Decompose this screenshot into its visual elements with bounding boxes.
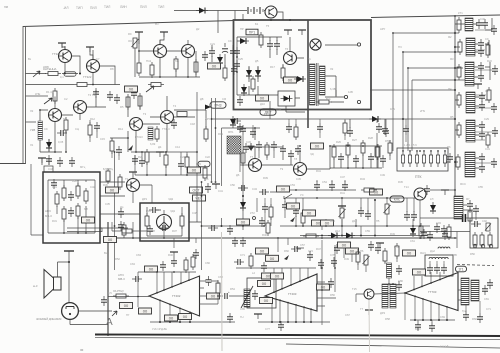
- resistor R42: [419, 223, 423, 239]
- wire: to right: [174, 110, 206, 128]
- arrow A2: [290, 217, 295, 222]
- fuse label F1: [246, 29, 258, 35]
- wire: row2 bus: [40, 90, 106, 152]
- capacitor C44: [68, 207, 74, 217]
- wire: r71 link: [90, 120, 97, 142]
- diode D11: [240, 199, 246, 211]
- capacitor C58: [293, 207, 299, 217]
- pot arrow P2: [146, 86, 154, 92]
- wire: vertical junction bus: [202, 182, 244, 270]
- node N3: [347, 145, 349, 147]
- diode D9: [294, 76, 306, 82]
- capacitor C124: [202, 51, 208, 61]
- wire: U2 stubs: [236, 268, 336, 322]
- node N1: [454, 46, 456, 48]
- capacitor C73: [261, 262, 267, 272]
- svg-text:ГТ402: ГТ402: [172, 294, 181, 298]
- ground G12: [254, 314, 262, 319]
- terminal O1: [357, 43, 360, 46]
- svg-text:R54: R54: [230, 287, 235, 291]
- capacitor C105: [380, 155, 386, 165]
- svg-text:ЖОНБЫЙ ДИНАМИК: ЖОНБЫЙ ДИНАМИК: [36, 317, 62, 321]
- svg-text:ДР2: ДР2: [380, 311, 386, 315]
- coil L37: [454, 196, 463, 219]
- svg-text:СЗ: СЗ: [228, 39, 232, 43]
- svg-text:Т7: Т7: [250, 155, 254, 159]
- svg-text:R58: R58: [385, 317, 390, 321]
- svg-text:С63: С63: [130, 262, 135, 266]
- audio frame left: [107, 222, 109, 336]
- svg-text:КТ1: КТ1: [458, 11, 463, 15]
- transistor T6: [284, 52, 297, 65]
- resistor R55: [164, 152, 168, 168]
- svg-text:АРУ: АРУ: [205, 117, 211, 121]
- wire: extras links: [257, 192, 285, 218]
- resistor R49: [356, 249, 360, 265]
- svg-text:Ф2: Ф2: [448, 35, 452, 39]
- wire: mid band link: [265, 198, 271, 226]
- svg-text:Т15: Т15: [352, 287, 357, 291]
- wire: border links left: [26, 96, 49, 122]
- capacitor C8: [209, 47, 215, 57]
- svg-text:R22: R22: [487, 59, 492, 63]
- capacitor C82: [487, 279, 493, 289]
- capacitor C10: [230, 47, 236, 57]
- wire: cluster1 link: [455, 18, 492, 30]
- diode D5: [246, 67, 252, 79]
- capacitor C133: [415, 321, 421, 331]
- svg-text:R8: R8: [110, 67, 114, 71]
- svg-text:Т6: Т6: [63, 117, 67, 121]
- svg-text:R12: R12: [90, 117, 95, 121]
- wire: cluster links: [344, 248, 397, 284]
- label L31: [413, 269, 426, 275]
- resistor R28: [361, 140, 365, 156]
- switch S1: [401, 152, 404, 167]
- coil L2: [38, 121, 43, 140]
- svg-text:ПИЛ: ПИЛ: [90, 6, 97, 10]
- svg-text:R17: R17: [270, 65, 275, 69]
- resistor R58: [375, 144, 379, 160]
- ground G16: [156, 152, 164, 157]
- diode D8: [281, 96, 293, 102]
- label L25: [256, 248, 269, 254]
- resistor R74: [294, 124, 298, 140]
- svg-text:ЧД: ЧД: [310, 152, 314, 156]
- capacitor C93: [434, 223, 440, 233]
- resistor R75: [343, 120, 347, 136]
- wire: bus y226: [202, 218, 266, 226]
- resistor R63: [486, 42, 490, 58]
- capacitor C83: [427, 264, 433, 274]
- capacitor C15: [274, 40, 280, 50]
- discriminator frame M2: [140, 203, 189, 241]
- svg-text:IIII: IIII: [80, 348, 84, 352]
- svg-text:Д13: Д13: [352, 219, 357, 223]
- terminal O4: [253, 217, 256, 220]
- svg-text:С63: С63: [136, 253, 141, 257]
- bridge rectifier box: [278, 91, 295, 106]
- capacitor C9: [222, 49, 228, 53]
- capacitor C48: [205, 183, 211, 193]
- label DET: [260, 109, 276, 115]
- capacitor C76: [318, 259, 324, 269]
- detector cluster: [330, 140, 382, 169]
- resistor R30: [55, 191, 59, 207]
- svg-text:ПИЛ: ПИЛ: [140, 5, 147, 9]
- resistor R26: [332, 144, 336, 160]
- svg-text:R52: R52: [115, 257, 120, 261]
- capacitor C36: [295, 145, 301, 155]
- svg-text:Тр1: Тр1: [326, 97, 331, 101]
- coil L5: [148, 127, 153, 140]
- svg-text:С43: С43: [252, 187, 257, 191]
- svg-text:6,3В: 6,3В: [330, 87, 336, 91]
- capacitor C40: [382, 125, 388, 135]
- label L13 rounded: [390, 196, 404, 202]
- svg-text:С54: С54: [322, 180, 327, 184]
- svg-text:ПР: ПР: [240, 27, 244, 31]
- transistor T10: [161, 111, 174, 124]
- svg-text:УС: УС: [300, 193, 304, 197]
- svg-text:6,8: 6,8: [84, 207, 88, 211]
- note: dashed adjust line: [457, 265, 494, 266]
- svg-text:Т5: Т5: [266, 24, 270, 28]
- capacitor C50: [238, 185, 248, 191]
- wire: bank frame: [397, 148, 448, 171]
- svg-text:С68: С68: [218, 275, 223, 279]
- resistor R50: [383, 248, 387, 264]
- wire: afc link vertical: [31, 164, 43, 235]
- capacitor C12: [234, 47, 240, 57]
- diode D12: [410, 225, 416, 237]
- wire: band links: [112, 222, 164, 238]
- svg-text:R28: R28: [72, 179, 77, 183]
- ground G11: [170, 252, 178, 257]
- wire: corner links: [420, 218, 470, 248]
- note: title annotations: [4, 5, 164, 10]
- capacitor C59: [358, 207, 364, 217]
- resistor R61: [122, 222, 126, 238]
- svg-text:С24: С24: [180, 155, 185, 159]
- svg-text:ГР: ГР: [126, 313, 129, 317]
- right column extras: [454, 25, 498, 168]
- svg-text:Б1: Б1: [255, 22, 259, 26]
- label L14: [370, 189, 383, 195]
- svg-text:С35: С35: [105, 202, 110, 206]
- wire: caps column feeds: [212, 43, 233, 68]
- svg-text:1Г1: 1Г1: [458, 268, 463, 272]
- capacitor C34: [280, 145, 286, 155]
- coil L35: [387, 263, 392, 278]
- resistor R20: [457, 17, 461, 33]
- svg-text:С53: С53: [290, 183, 295, 187]
- label L2: [125, 86, 138, 92]
- resistor R6: [138, 93, 142, 109]
- wire: fold line faint: [221, 232, 224, 351]
- capacitor C22: [478, 39, 484, 49]
- resistor R71: [88, 122, 92, 138]
- label L33: [338, 242, 351, 248]
- svg-text:С27: С27: [485, 89, 490, 93]
- resistor R33: [84, 188, 88, 204]
- svg-text:ДР1: ДР1: [142, 197, 148, 201]
- capacitor C123: [114, 94, 120, 104]
- svg-text:R31: R31: [52, 219, 57, 223]
- svg-text:R47: R47: [316, 247, 321, 251]
- wire: mid vertical bus 1: [196, 92, 198, 180]
- wire: nested feed 3: [408, 68, 463, 151]
- svg-text:ГТ: ГТ: [360, 307, 363, 311]
- wire: left margin line: [0, 163, 26, 165]
- wire: sparse links: [253, 119, 345, 140]
- ground G10: [212, 184, 220, 189]
- capacitor C101: [240, 237, 246, 247]
- capacitor C122: [107, 91, 113, 101]
- svg-text:R49: R49: [390, 232, 395, 236]
- svg-text:R43: R43: [330, 219, 335, 223]
- IF transformer cluster 6: [446, 152, 485, 177]
- resistor R3: [53, 88, 57, 104]
- label L26: [266, 255, 279, 261]
- wire: transformer outputs: [286, 45, 357, 112]
- coil bumps row 1: [429, 257, 448, 259]
- capacitor C7: [240, 125, 246, 135]
- capacitor C91: [467, 200, 473, 210]
- resistor R64: [487, 87, 491, 103]
- wire: M4 links: [430, 261, 444, 264]
- svg-text:R28: R28: [368, 136, 373, 140]
- svg-text:нм: нм: [4, 5, 8, 9]
- capacitor C130: [116, 146, 122, 156]
- svg-text:С49: С49: [380, 173, 385, 177]
- tube V1: [157, 215, 172, 230]
- resistor R39: [180, 213, 184, 229]
- svg-text:Др: Др: [120, 205, 124, 209]
- op-amp U1: [149, 276, 200, 316]
- wire: G1 stem: [62, 43, 65, 50]
- capacitor C62: [101, 296, 107, 306]
- electrolytic C69: [225, 290, 230, 299]
- svg-text:МГц: МГц: [80, 165, 86, 169]
- capacitor C129: [262, 203, 268, 213]
- resistor R35: [76, 203, 80, 219]
- capacitor C28: [479, 121, 485, 131]
- svg-text:Др2: Др2: [430, 249, 435, 253]
- label pair L40: [312, 220, 325, 226]
- wire: bottom right sheet line: [286, 344, 500, 348]
- svg-text:С80: С80: [398, 279, 403, 283]
- transistor T1: [59, 50, 72, 63]
- svg-text:Д2: Д2: [196, 27, 200, 31]
- transistor T13: [127, 179, 140, 192]
- small box B1: [44, 166, 53, 172]
- diode D1: [46, 139, 52, 151]
- capacitor C134: [429, 322, 435, 332]
- U3 pins top: [413, 275, 450, 290]
- label OCT: [190, 187, 203, 193]
- label L19: [165, 315, 178, 321]
- capacitor C27: [479, 101, 485, 111]
- diode D16 on agc bus: [369, 116, 381, 122]
- svg-text:ТИЛ: ТИЛ: [158, 5, 164, 9]
- diode D13: [343, 233, 355, 239]
- svg-text:С15: С15: [100, 137, 105, 141]
- label L27: [271, 273, 284, 279]
- label L11: [106, 187, 119, 193]
- transformer FL3: [465, 62, 474, 86]
- svg-text:П6: П6: [360, 249, 364, 253]
- node N7: [68, 261, 70, 263]
- svg-text:R36: R36: [103, 183, 108, 187]
- transformer TR1 core: [317, 63, 319, 106]
- transistor T5: [265, 6, 277, 18]
- pot P5: [384, 204, 391, 214]
- transistor T4: [182, 45, 195, 58]
- svg-text:ПР1: ПР1: [249, 31, 256, 35]
- svg-text:R19: R19: [218, 132, 223, 136]
- diode arrow D2: [248, 143, 254, 150]
- capacitor C79: [331, 257, 337, 267]
- transistor T9: [130, 118, 143, 131]
- svg-text:R14: R14: [118, 127, 123, 131]
- svg-text:ГТ403: ГТ403: [288, 292, 297, 296]
- label L23: [258, 281, 271, 287]
- capacitor C108: [256, 141, 262, 151]
- label L43: [287, 203, 300, 209]
- label L17: [120, 303, 133, 309]
- diode D4: [237, 38, 249, 44]
- svg-text:ТИП: ТИП: [76, 6, 83, 10]
- svg-text:Т9: Т9: [280, 167, 284, 171]
- svg-text:R1 4,7: R1 4,7: [46, 90, 54, 94]
- svg-text:П41: П41: [146, 59, 152, 63]
- svg-text:ГТ703: ГТ703: [428, 290, 437, 294]
- svg-text:С18: С18: [190, 122, 195, 126]
- svg-text:С45: С45: [296, 177, 301, 181]
- diode D15: [328, 233, 340, 239]
- capacitor C35: [288, 150, 294, 160]
- capacitor C29: [479, 130, 485, 140]
- label L7: [284, 77, 297, 83]
- wire: bottom page edge second: [95, 338, 500, 340]
- capacitor C5: [171, 119, 177, 129]
- svg-text:Т4: Т4: [173, 104, 177, 108]
- ground G6: [284, 30, 292, 35]
- switch S2: [408, 152, 411, 167]
- svg-text:R51: R51: [394, 245, 399, 249]
- wire: top border right part: [371, 15, 500, 18]
- svg-text:R45: R45: [398, 180, 403, 184]
- wire: t11 base links: [240, 151, 274, 172]
- electrolytic C78: [334, 244, 340, 254]
- wire: G5 stem: [160, 32, 164, 44]
- svg-text:С93: С93: [436, 221, 441, 225]
- label L4 rounded: [210, 102, 226, 108]
- label L28: [317, 284, 330, 290]
- wire: nested feed 1: [393, 33, 459, 151]
- resistor R22: [457, 64, 461, 80]
- coil bumps row 2: [438, 247, 450, 249]
- svg-text:С41: С41: [218, 189, 223, 193]
- svg-text:С14: С14: [175, 145, 180, 149]
- svg-text:С40: С40: [480, 17, 485, 21]
- svg-text:СФ: СФ: [222, 97, 226, 101]
- svg-text:с-с-с-б: с-с-с-б: [440, 344, 449, 348]
- wire: box internals: [237, 37, 304, 95]
- wire: fold line faint 2: [368, 300, 371, 352]
- capacitor C127: [317, 123, 323, 133]
- terminal bar TB1: [64, 250, 74, 252]
- resistor R69: [203, 165, 207, 181]
- capacitor C57: [411, 211, 417, 221]
- wire: bottom page edge thick: [95, 335, 500, 337]
- capacitor C4: [131, 89, 137, 99]
- svg-text:С7: С7: [96, 57, 100, 61]
- label pair L41: [321, 220, 334, 226]
- svg-text:R35: R35: [146, 209, 151, 213]
- ground G14: [376, 243, 384, 248]
- svg-text:Д12: Д12: [335, 229, 340, 233]
- capacitor C31: [479, 163, 485, 173]
- ground G8: [474, 84, 482, 89]
- diode D18: [217, 54, 223, 66]
- checkerboard filter FL7: [227, 136, 241, 154]
- wire: right main bus: [454, 16, 456, 196]
- resistor R65: [486, 132, 490, 148]
- svg-text:Л2: Л2: [330, 67, 334, 71]
- wire: A-B link: [200, 281, 248, 304]
- capacitor C20: [476, 19, 482, 29]
- transistor T3: [154, 45, 167, 58]
- switch S6: [436, 152, 439, 167]
- svg-text:ТИЛ: ТИЛ: [104, 5, 110, 9]
- svg-text:С51: С51: [276, 107, 281, 111]
- terminal O3: [357, 100, 360, 103]
- resistor R56: [185, 154, 189, 170]
- svg-text:ПТК: ПТК: [415, 175, 422, 179]
- label L44: [303, 210, 316, 216]
- audio frame top: [108, 237, 455, 239]
- resistor R16: [316, 100, 332, 104]
- svg-text:R60: R60: [284, 249, 289, 253]
- ground G9: [129, 172, 137, 177]
- arrow A5: [128, 145, 133, 151]
- wire: right mid links: [430, 190, 476, 220]
- label L24: [260, 298, 273, 304]
- wire: cluster6 link: [446, 158, 479, 168]
- svg-text:Т2 П41: Т2 П41: [88, 93, 97, 97]
- svg-text:ЧЕС: ЧЕС: [196, 197, 204, 201]
- U2 pins bottom: [271, 297, 312, 310]
- svg-text:С78: С78: [330, 253, 335, 257]
- diode D7: [241, 84, 247, 96]
- svg-text:С69: С69: [440, 315, 445, 319]
- pot P3: [132, 38, 139, 48]
- svg-text:R41: R41: [340, 191, 345, 195]
- tube V1 internals: [159, 216, 169, 227]
- resistor R43: [303, 234, 319, 238]
- svg-text:1 2 3 4 5 6: 1 2 3 4 5 6: [404, 143, 417, 147]
- svg-text:R39: R39: [263, 176, 268, 180]
- wire: G4 stem: [138, 32, 140, 44]
- capacitor C26: [479, 92, 485, 102]
- svg-text:0,05: 0,05: [58, 140, 64, 144]
- pot P4: [339, 208, 346, 218]
- svg-text:С85: С85: [452, 253, 457, 257]
- resistor R53: [447, 224, 451, 240]
- transistor T2: [87, 60, 100, 73]
